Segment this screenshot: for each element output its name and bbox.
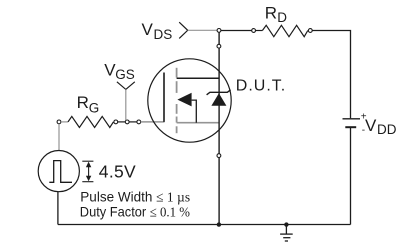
junction source to bottom rail	[217, 222, 221, 226]
label VDD	[365, 116, 397, 137]
svg-text:R: R	[265, 4, 277, 23]
svg-text:Duty Factor ≤ 0.1 %: Duty Factor ≤ 0.1 %	[80, 204, 190, 221]
wire gate rail segment	[129, 121, 137, 123]
wire gate rail segment	[118, 121, 126, 123]
dimension 4.5V amplitude arrow	[82, 161, 93, 182]
transistor source stub gray	[177, 122, 219, 124]
diode body zener	[207, 90, 231, 106]
svg-text:DD: DD	[377, 122, 397, 137]
probe VDS chevron	[179, 22, 188, 38]
transistor drain stub	[177, 77, 219, 79]
svg-text:D: D	[277, 10, 287, 25]
svg-text:G: G	[89, 100, 100, 115]
node gate terminal 1	[114, 120, 118, 124]
node RG left terminal	[57, 120, 61, 124]
svg-text:V: V	[142, 20, 154, 39]
label VGS	[104, 60, 135, 82]
probe VGS chevron	[117, 82, 135, 90]
transistor gate electrode	[163, 73, 165, 122]
svg-text:DS: DS	[154, 27, 173, 42]
wire drain vertical	[218, 32, 220, 224]
pulse generator V1	[38, 151, 79, 192]
wire gate gray lead into DUT	[141, 121, 165, 123]
node source terminal	[217, 154, 221, 158]
wire pulse generator to bottom rail	[57, 192, 59, 225]
node drain terminal second	[217, 44, 221, 48]
svg-text:4.5V: 4.5V	[99, 162, 136, 182]
wire VDS gray lead	[188, 29, 217, 31]
svg-text:R: R	[77, 93, 89, 112]
label RG	[77, 93, 100, 115]
svg-text:V: V	[365, 116, 377, 135]
wire top rail to RD	[221, 30, 252, 32]
transistor channel dashed	[176, 68, 178, 133]
transistor body arrow	[177, 93, 196, 123]
node gate terminal 3	[137, 120, 141, 124]
resistor RG	[61, 116, 114, 127]
resistor RD	[256, 25, 309, 36]
label VDS	[142, 20, 173, 42]
transistor DUT circle	[148, 59, 231, 142]
wire bottom rail	[58, 224, 351, 226]
ground	[280, 225, 293, 241]
wire VDD to bottom rail	[350, 127, 352, 224]
wire RD to VDD corner	[312, 31, 350, 119]
wire RG node down to pulse generator	[58, 124, 60, 151]
node gate terminal 2 (VGS tap)	[125, 120, 129, 124]
node RD right terminal	[308, 29, 312, 33]
svg-text:GS: GS	[115, 67, 135, 82]
node RD left terminal	[252, 29, 256, 33]
node drain terminal top	[217, 29, 221, 33]
svg-text:D.U.T.: D.U.T.	[236, 78, 286, 95]
junction ground	[284, 222, 288, 226]
battery VDD	[343, 112, 367, 136]
label RD	[265, 4, 287, 26]
wire VGS gray stem	[125, 89, 127, 120]
